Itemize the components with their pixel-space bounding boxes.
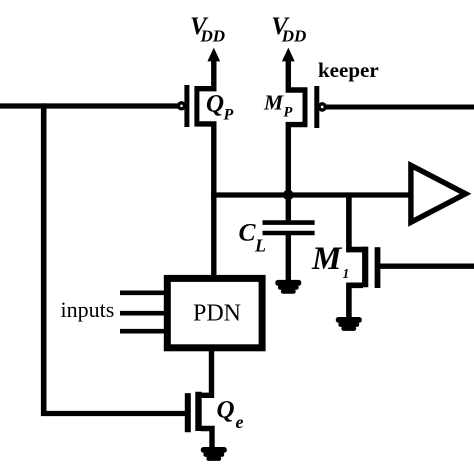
svg-text:Q: Q [206,91,224,118]
svg-text:Q: Q [217,397,235,424]
input line 3 [120,329,167,334]
power arrow to V_DD above Q_P [207,48,220,62]
svg-text:C: C [239,218,257,247]
svg-text:keeper: keeper [318,58,379,82]
svg-text:PDN: PDN [193,300,241,326]
transistor Q_P (PMOS, precharge) [179,60,214,198]
svg-text:L: L [254,236,266,256]
svg-text:P: P [223,107,234,124]
svg-text:P: P [284,105,293,121]
svg-text:1: 1 [343,266,350,281]
svg-text:M: M [311,241,343,277]
input line 2 [120,311,167,316]
svg-text:inputs: inputs [61,297,115,322]
wire: dynamic node horizontal wire [211,192,411,197]
input line 1 [120,290,167,295]
svg-text:DD: DD [281,27,307,46]
capacitor C_L [263,195,315,281]
svg-text:DD: DD [200,27,226,46]
wire: left vertical bus from input wire down to Q_e gate wire [41,103,47,416]
ground below M_1 [336,317,362,331]
ground below C_L [275,280,301,294]
power arrow to V_DD above M_P [282,48,295,62]
wire: M_1 drain wire from node down [349,193,363,250]
wire: M_1 gate wire to right edge [378,264,474,269]
transistor M_P (PMOS keeper) [288,60,325,196]
wire: PDN bottom wire down to Q_e drain [201,351,212,395]
ground below Q_e [201,447,227,461]
wire: PDN top wire (from Q_P drain vertical, already drawn above, continues) [211,196,216,278]
node junction dot [283,190,294,201]
buffer U1 (output inverter triangle) [411,165,466,222]
wire: Q_e gate wire (bottom horizontal) [41,411,186,416]
wire: keeper gate wire from M_P gate bubble to right edge [326,105,474,110]
PDN block box [167,278,262,347]
transistor Q_e (NMOS, evaluate) [188,392,212,448]
wire: input gate wire from left edge to Q_P gate [0,103,179,108]
svg-text:e: e [236,412,244,432]
svg-text:M: M [263,91,284,115]
transistor M_1 (NMOS) [349,247,378,318]
